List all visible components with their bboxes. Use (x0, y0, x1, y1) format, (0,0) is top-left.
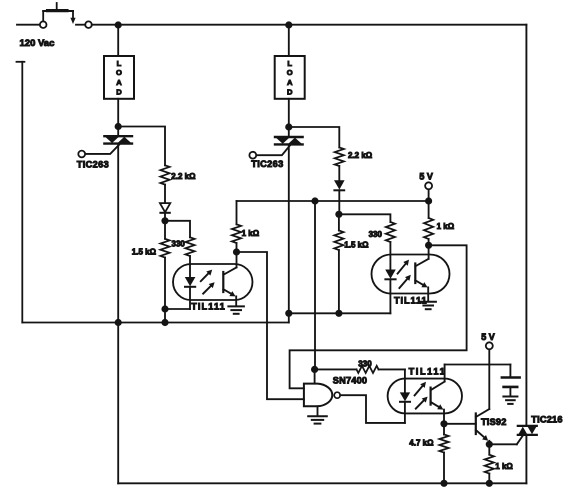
phototransistor U1 (223, 252, 236, 306)
resistor R1 2.2 k (160, 165, 169, 184)
label 1 kOhm (R4) (242, 229, 260, 238)
phototransistor U2 (415, 245, 428, 301)
wire: branch to R7 330 (339, 214, 391, 222)
diode CR1 (open) (160, 203, 170, 213)
wire: Q4 gate (489, 434, 524, 444)
node: rail to LOAD2 (285, 21, 292, 28)
wire: LOAD1 drop (117, 25, 119, 56)
node: LED1 cathode junction (161, 305, 168, 312)
wire: Vcc stub into gate (314, 369, 316, 383)
wire: left return drop (117, 323, 119, 484)
svg-text:O: O (116, 68, 122, 77)
svg-text:4.7 kΩ: 4.7 kΩ (409, 439, 434, 448)
node: Q2 anode junction (285, 123, 292, 130)
svg-text:TIC263: TIC263 (77, 159, 109, 169)
svg-text:120 Vac: 120 Vac (20, 38, 55, 49)
diode CR2 (solid) (334, 180, 345, 190)
svg-text:5 V: 5 V (419, 171, 433, 181)
wire: AC hot lead (17, 24, 40, 26)
resistor R3 330 (185, 237, 194, 256)
label 1.5 kOhm (R2) (132, 247, 157, 256)
opto U1 TIL111 package (173, 264, 252, 300)
node: U1 collector (233, 248, 240, 255)
resistor R9 330 (horizontal) (315, 366, 405, 373)
capacitor C1 (502, 365, 520, 397)
wire: R1 to CR1 (164, 185, 166, 204)
wire: U2 collector to gate input A (290, 245, 467, 388)
svg-text:TIL111: TIL111 (409, 367, 447, 377)
wire: gate output to LED3 (340, 395, 405, 423)
LED D3 in U4 (400, 369, 410, 423)
resistor R4 1 k (232, 201, 241, 252)
wire: R5 to CR2 (338, 166, 340, 180)
wire: R2 bottom to rail (164, 258, 166, 323)
label TIC263 (Q2) (251, 159, 283, 169)
svg-text:1.5 kΩ: 1.5 kΩ (132, 247, 157, 256)
node: U2 collector (425, 242, 432, 249)
svg-text:1 kΩ: 1 kΩ (437, 222, 455, 231)
node: rail junction left (115, 319, 122, 326)
svg-text:1 kΩ: 1 kΩ (495, 462, 513, 471)
wire: branch to R5 2.2k (289, 127, 340, 148)
triac Q2 TIC263 (249, 137, 302, 159)
wire: riser to AC return rail (288, 313, 290, 322)
node: branch to SN7400 Vcc (311, 197, 318, 204)
label TIS92 (481, 417, 507, 427)
label 2.2 kOhm (R1) (171, 172, 196, 181)
svg-text:D: D (287, 88, 293, 97)
wire: LOAD2 drop (288, 25, 290, 56)
terminal: 5 V supply #2 (486, 342, 493, 364)
node: R10 to bottom rail (440, 480, 447, 487)
opto U4 TIL111 package (388, 379, 462, 414)
resistor R8 1 k (424, 201, 433, 245)
wire: 5V collector rail (237, 200, 429, 202)
node: CR2 cathode junction (335, 211, 342, 218)
load box LOAD1 (104, 56, 134, 99)
svg-text:A: A (287, 78, 293, 87)
svg-text:L: L (287, 59, 292, 68)
svg-text:330: 330 (172, 239, 186, 248)
wire: LED1 cathode link (165, 308, 190, 310)
switch S1 (line switch) (40, 3, 92, 28)
wire: right-side bus (down to TIC216) (525, 25, 527, 426)
wire: Q2 MT1 drop (288, 144, 290, 313)
svg-text:SN7400: SN7400 (333, 376, 367, 386)
wire: LED2 cathode link (289, 312, 391, 314)
wire: branch to R1 2.2k (118, 127, 165, 166)
ground: U2 emitter (420, 302, 436, 309)
resistor R5 2.2 k (335, 148, 344, 167)
label TIC263 (Q1) (77, 159, 109, 169)
svg-text:L: L (117, 59, 122, 68)
wire: CR2 cathode (338, 190, 340, 214)
svg-text:TIL111: TIL111 (394, 296, 428, 306)
label 330 (R9) (358, 359, 372, 368)
label 2.2 kOhm (R5) (348, 151, 373, 160)
resistor R7 330 (386, 222, 395, 242)
resistor R2 1.5 k (160, 221, 169, 258)
node: rail to LOAD1 (115, 21, 122, 28)
node: Q2 to return junction (285, 310, 292, 317)
svg-text:TIC216: TIC216 (531, 415, 562, 425)
LED D2 in U2 (385, 242, 396, 313)
svg-text:D: D (116, 88, 122, 97)
svg-text:330: 330 (358, 359, 372, 368)
triac Q4 TIC216 (518, 426, 537, 435)
node: 330 feed junction (311, 366, 318, 373)
label 330 (R7) (369, 230, 383, 239)
light arrows U4 (415, 382, 428, 409)
label 1 kOhm (R11) (495, 462, 513, 471)
nand gate U3 SN7400 (304, 384, 340, 407)
label TIL111 (U4) (409, 367, 447, 377)
svg-text:1 kΩ: 1 kΩ (242, 229, 260, 238)
svg-text:TIL111: TIL111 (191, 301, 226, 311)
resistor R6 1.5 k (334, 214, 343, 313)
opto U2 TIL111 package (372, 255, 450, 294)
svg-text:A: A (116, 78, 122, 87)
label 5 V (#1) (419, 171, 433, 181)
node: Q3 emitter (486, 441, 493, 448)
light arrows U1 (201, 270, 215, 294)
label TIL111 (U1) (191, 301, 226, 311)
svg-text:1.5 kΩ: 1.5 kΩ (344, 241, 369, 250)
wire: AC neutral vertical (17, 62, 25, 323)
wire: bottom return rail (118, 482, 526, 484)
label SN7400 (333, 376, 367, 386)
phototransistor U4 (431, 365, 445, 424)
LED D1 in U1 (185, 256, 196, 309)
terminal: 5 V supply #1 (425, 182, 432, 201)
label 1.5 kOhm (R6) (344, 241, 369, 250)
wire: 5V rail lower (445, 364, 511, 366)
label 5 V (#2) (481, 332, 495, 342)
wire: top AC rail (92, 24, 527, 26)
label 4.7 kOhm (R10) (409, 439, 434, 448)
label 1 kOhm (R8) (437, 222, 455, 231)
svg-text:2.2 kΩ: 2.2 kΩ (348, 151, 373, 160)
node: R11 to bottom rail (486, 480, 493, 487)
wire: LOAD2 to triac Q2 (288, 99, 290, 137)
svg-text:330: 330 (369, 230, 383, 239)
wire: branch to R3 330 (165, 221, 190, 238)
node: 5V terminal junction (425, 197, 432, 204)
svg-text:2.2 kΩ: 2.2 kΩ (171, 172, 196, 181)
wire: right bus below Q4 (525, 435, 527, 483)
load box LOAD2 (275, 56, 305, 99)
ground: C1 (503, 397, 517, 404)
wire: Vcc feed to SN7400 (314, 201, 316, 369)
ground: U1 emitter (228, 306, 244, 313)
label TIL111 (U2) (394, 296, 428, 306)
label 330 (R3) (172, 239, 186, 248)
svg-text:TIS92: TIS92 (481, 417, 507, 427)
node: rail junction at 1.5k (161, 319, 168, 326)
svg-text:TIC263: TIC263 (251, 159, 283, 169)
ground: SN7400 (308, 406, 327, 423)
triac Q1 TIC263 (78, 136, 132, 157)
transistor Q3 TIS92 (444, 365, 489, 445)
node: LED2 cathode junction (335, 310, 342, 317)
resistor R11 1 k (485, 444, 494, 483)
wire: CR1 to node (164, 213, 166, 221)
svg-text:O: O (287, 68, 293, 77)
node: Q1 anode junction (115, 123, 122, 130)
svg-text:5 V: 5 V (481, 332, 495, 342)
node: CR1 cathode junction (161, 217, 168, 224)
resistor R10 4.7 k (439, 424, 448, 484)
light arrows U2 (398, 260, 411, 288)
wire: Q1 MT1 drop to rail (117, 144, 119, 323)
wire: U1 collector to gate input B (237, 252, 304, 399)
wire: LOAD1 to triac Q1 (117, 99, 119, 136)
label 120 Vac (20, 38, 55, 49)
wire: AC return rail (22, 322, 289, 324)
node: U4 emitter (440, 420, 447, 427)
label TIC216 (531, 415, 562, 425)
